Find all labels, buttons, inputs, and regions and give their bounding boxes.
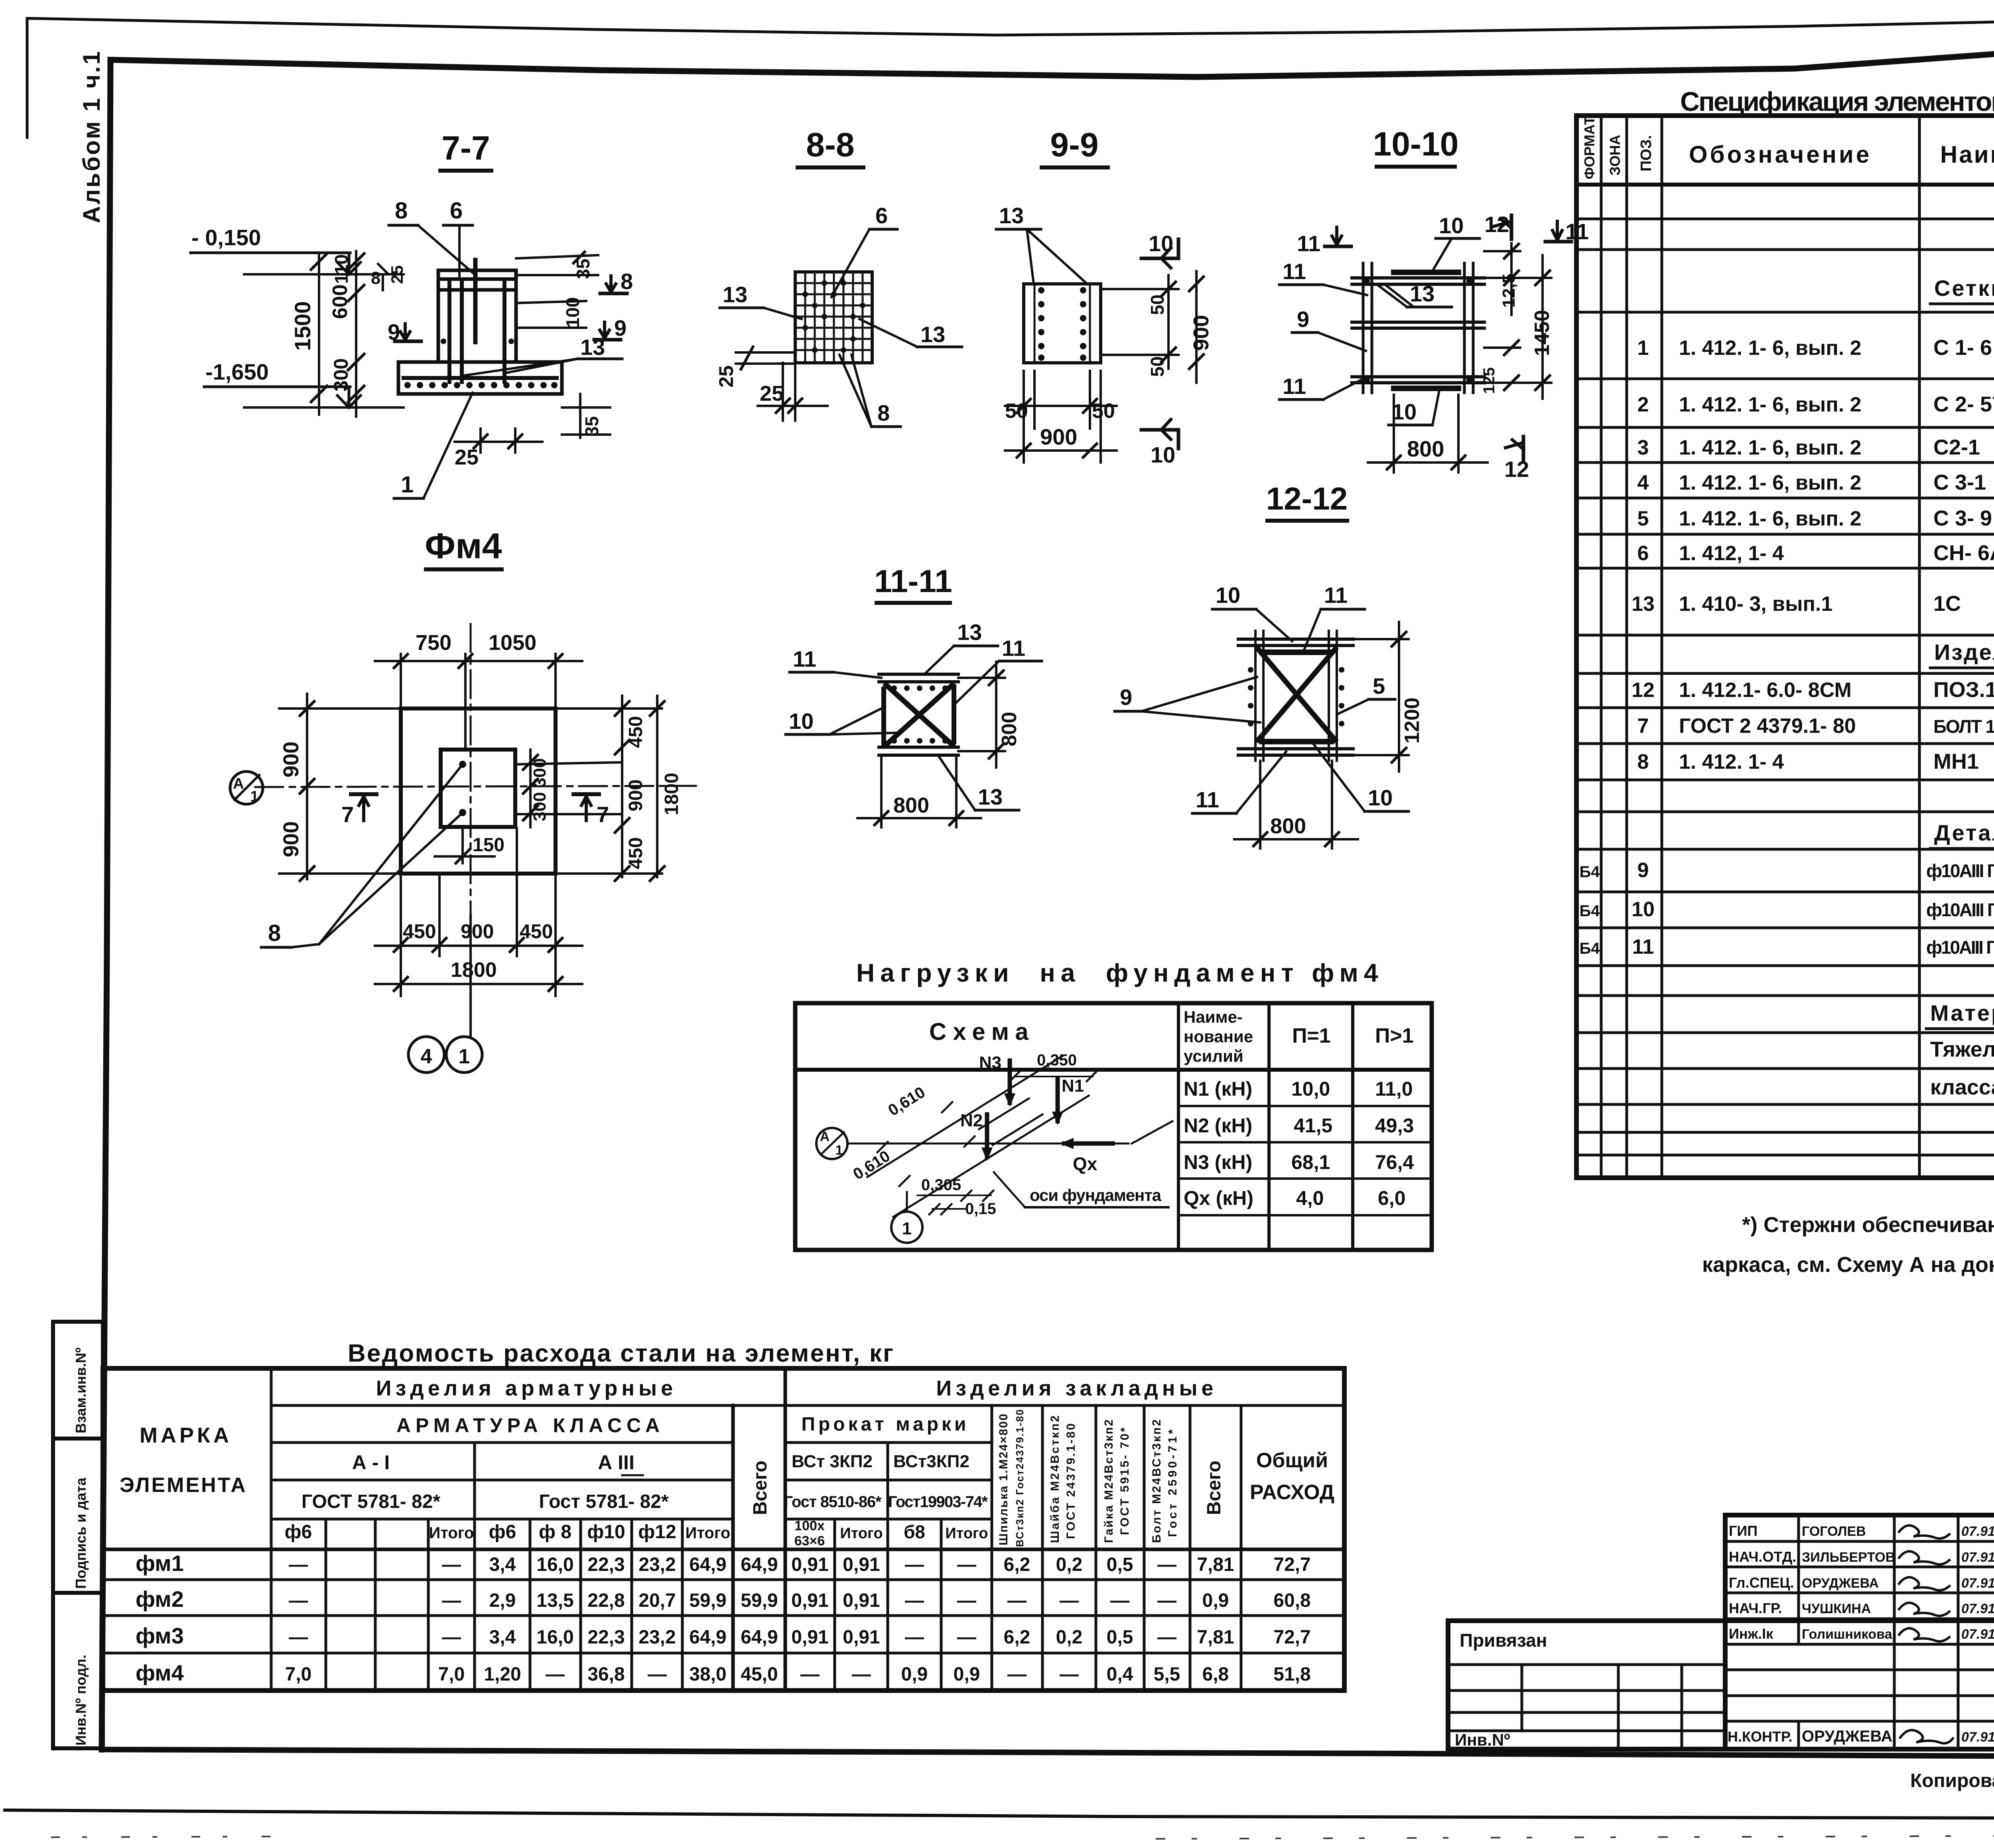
svg-text:0,610: 0,610: [850, 1147, 893, 1183]
svg-text:11: 11: [1002, 636, 1025, 661]
svg-text:Альбом 1 ч.1: Альбом 1 ч.1: [78, 50, 105, 223]
svg-text:900: 900: [279, 742, 303, 777]
svg-text:1200: 1200: [1401, 697, 1424, 744]
svg-text:Схема: Схема: [929, 1018, 1035, 1045]
section 12-12 leader 11 bottom-left: [1192, 752, 1286, 813]
svg-text:63×6: 63×6: [794, 1533, 825, 1549]
svg-text:Изделия арматурные: Изделия арматурные: [376, 1376, 677, 1400]
svg-text:13: 13: [580, 335, 605, 360]
section 12-12 title: [1266, 481, 1348, 521]
svg-text:0,15: 0,15: [965, 1200, 996, 1218]
loads schema axes label: [994, 1121, 1172, 1207]
svg-text:ПОЗ.: ПОЗ.: [1638, 135, 1655, 171]
section 12-12 embed bars: [1262, 649, 1331, 655]
svg-text:МАРКА: МАРКА: [140, 1423, 232, 1447]
svg-text:49,3: 49,3: [1375, 1114, 1414, 1137]
svg-text:3,4: 3,4: [489, 1554, 516, 1575]
section 7-7 dim chain 110 600 300: [329, 251, 406, 417]
svg-text:900: 900: [1040, 424, 1077, 449]
section 11-11 leader 11 top-right: [956, 636, 1042, 703]
svg-text:2,9: 2,9: [489, 1590, 516, 1611]
svg-text:300: 300: [530, 792, 550, 821]
svg-text:Qх (кН): Qх (кН): [1184, 1187, 1253, 1209]
svg-text:1800: 1800: [661, 773, 682, 815]
svg-text:7: 7: [341, 802, 354, 827]
section 7-7 column outline: [438, 270, 516, 362]
svg-text:Общий: Общий: [1256, 1449, 1328, 1472]
svg-text:Б4: Б4: [1580, 940, 1600, 957]
section 9-9 leader label 13: [996, 203, 1087, 284]
svg-text:23,2: 23,2: [638, 1627, 676, 1648]
svg-text:4,0: 4,0: [1296, 1187, 1324, 1209]
svg-text:900: 900: [279, 821, 303, 857]
svg-text:800: 800: [998, 712, 1021, 746]
section 8-8 mesh outline: [795, 272, 872, 363]
svg-text:45,0: 45,0: [741, 1664, 778, 1685]
svg-text:50: 50: [1092, 400, 1115, 423]
title block outer: [1448, 1621, 1994, 1749]
svg-text:11: 11: [1283, 374, 1306, 399]
svg-text:0,350: 0,350: [1037, 1051, 1077, 1069]
svg-text:13: 13: [1410, 281, 1434, 306]
svg-text:оси фундамента: оси фундамента: [1030, 1186, 1162, 1204]
svg-text:72,7: 72,7: [1273, 1627, 1310, 1648]
svg-text:1800: 1800: [451, 958, 497, 982]
svg-text:каркаса, см. Схему А на доку: каркаса, см. Схему А на документе 1.412.…: [1702, 1253, 1994, 1277]
svg-text:600: 600: [329, 284, 352, 319]
svg-text:С 3- 9: С 3- 9: [1933, 506, 1992, 530]
svg-text:—: —: [648, 1664, 667, 1685]
svg-text:8: 8: [621, 269, 633, 294]
section 7-7 mark 9 down-right: [594, 315, 627, 340]
svg-text:ГИП: ГИП: [1729, 1523, 1758, 1539]
svg-text:0,305: 0,305: [921, 1176, 961, 1194]
svg-text:750: 750: [416, 631, 451, 655]
paper top edge line: [27, 18, 1994, 35]
svg-text:07.91: 07.91: [1961, 1601, 1994, 1616]
svg-text:Изделия закладные: Изделия закладные: [1934, 640, 1994, 665]
loads schema dim 0,350: [1010, 1051, 1097, 1081]
section 7-7 anchor bolt: [473, 260, 478, 342]
section 7-7 dim 35 bottom right: [562, 394, 610, 438]
plan FM4 right dim chain 450 900 450: [556, 696, 682, 881]
svg-text:ф 8: ф 8: [539, 1521, 571, 1543]
section 11-11 leader 13 top: [924, 620, 998, 674]
svg-text:ф6: ф6: [489, 1521, 516, 1543]
svg-text:—: —: [1157, 1554, 1176, 1575]
loads schema force N3: [979, 1053, 1015, 1107]
svg-text:нование: нование: [1184, 1027, 1253, 1046]
svg-text:25: 25: [715, 365, 737, 388]
svg-text:1500: 1500: [290, 301, 315, 351]
svg-text:Детали: Детали: [1934, 820, 1994, 845]
svg-text:4: 4: [1637, 471, 1649, 494]
svg-text:-1,650: -1,650: [205, 359, 269, 384]
svg-text:А III: А III: [598, 1451, 634, 1474]
svg-text:0,4: 0,4: [1107, 1664, 1133, 1685]
svg-text:07.91: 07.91: [1961, 1730, 1994, 1745]
svg-text:07.91: 07.91: [1961, 1627, 1994, 1642]
svg-text:Н.КОНТР.: Н.КОНТР.: [1728, 1728, 1793, 1745]
svg-text:Ведомость расхода стали на эле: Ведомость расхода стали на элемент, кг: [348, 1340, 898, 1367]
svg-text:20,7: 20,7: [638, 1590, 676, 1611]
svg-text:С 1- 6: С 1- 6: [1933, 336, 1992, 360]
plan FM4 section mark 7 left: [341, 794, 376, 827]
svg-text:22,3: 22,3: [587, 1627, 625, 1648]
svg-text:0,9: 0,9: [1202, 1590, 1229, 1611]
svg-text:Изделия закладные: Изделия закладные: [936, 1376, 1217, 1400]
svg-text:8: 8: [268, 920, 281, 946]
section 10-10 dim 125 right bottom: [1480, 340, 1520, 394]
svg-text:1. 412.1- 6.0- 8СМ: 1. 412.1- 6.0- 8СМ: [1679, 679, 1852, 702]
svg-text:5: 5: [1637, 507, 1649, 530]
section 12-12 dim 1200 right: [1353, 622, 1424, 771]
svg-text:ф10АIII ГОСТ 5781-82*, e=1180: ф10АIII ГОСТ 5781-82*, e=1180: [1926, 899, 1994, 920]
svg-text:*) Стержни обеспечивают прос: *) Стержни обеспечивают пространственную…: [1742, 1213, 1994, 1237]
svg-text:АРМАТУРА КЛАССА: АРМАТУРА КЛАССА: [396, 1414, 664, 1437]
svg-text:6,2: 6,2: [1004, 1627, 1030, 1648]
paper left edge line: [26, 18, 29, 138]
section 11-11 X brace: [886, 685, 952, 745]
svg-text:300: 300: [330, 358, 352, 392]
section 10-10 leader 11 bottom-left: [1279, 374, 1367, 400]
svg-text:—: —: [289, 1627, 308, 1648]
svg-text:0,91: 0,91: [791, 1554, 828, 1575]
section 9-9 right dims 50 900 50: [1101, 271, 1213, 383]
svg-text:—: —: [800, 1664, 820, 1685]
spec table horizontals: [1576, 185, 1994, 1155]
svg-text:Сетки арматурные: Сетки арматурные: [1934, 276, 1994, 301]
svg-text:4: 4: [421, 1045, 432, 1068]
section 7-7 footing outline: [398, 362, 562, 394]
loads table row lines: [1178, 1105, 1432, 1107]
svg-text:А: А: [820, 1129, 830, 1144]
svg-text:БОЛТ 1.1М 24×800,ВСТ3КП2: БОЛТ 1.1М 24×800,ВСТ3КП2: [1933, 716, 1994, 737]
svg-text:1. 412. 1- 6, вып. 2: 1. 412. 1- 6, вып. 2: [1679, 436, 1862, 459]
plan FM4 dim 150: [435, 827, 504, 863]
section 10-10 embed bars: [1394, 270, 1458, 275]
svg-text:10: 10: [1149, 231, 1173, 256]
svg-text:N3: N3: [979, 1053, 1001, 1073]
plan FM4 leader label 8: [261, 766, 461, 947]
svg-text:9-9: 9-9: [1050, 126, 1098, 163]
svg-text:72,7: 72,7: [1273, 1554, 1310, 1575]
svg-text:Итого: Итого: [429, 1524, 474, 1542]
signature table columns: [1799, 1515, 1958, 1749]
steel table frame: [103, 1368, 1344, 1691]
svg-text:1. 412. 1- 6, вып. 2: 1. 412. 1- 6, вып. 2: [1679, 393, 1862, 416]
section 11-11 leader 11 left: [790, 646, 881, 678]
section 7-7 footing mesh bar: [404, 376, 557, 380]
svg-text:1. 412, 1- 4: 1. 412, 1- 4: [1679, 542, 1784, 565]
svg-text:Наиме-: Наиме-: [1184, 1008, 1243, 1026]
section 8-8 leader label 13 left: [720, 282, 802, 319]
section 8-8 leader label 6: [831, 203, 897, 297]
svg-text:фм2: фм2: [136, 1586, 184, 1612]
svg-text:Нагрузки на фундамент фм4: Нагрузки на фундамент фм4: [856, 958, 1383, 987]
svg-text:35: 35: [581, 416, 602, 437]
svg-text:12-12: 12-12: [1266, 481, 1348, 516]
section 9-9 title: [1042, 126, 1108, 167]
section 11-11 title: [874, 563, 952, 603]
svg-text:—: —: [289, 1590, 308, 1611]
svg-text:10: 10: [1368, 785, 1393, 810]
svg-text:6,8: 6,8: [1202, 1664, 1229, 1685]
svg-text:10-10: 10-10: [1373, 125, 1459, 163]
svg-text:800: 800: [893, 793, 929, 817]
loads table header line: [795, 1068, 1432, 1072]
svg-text:ОРУДЖЕВА: ОРУДЖЕВА: [1802, 1728, 1892, 1745]
svg-text:Материалы: Материалы: [1930, 1000, 1994, 1025]
svg-text:0,91: 0,91: [843, 1554, 880, 1575]
section 9-9 cut mark 10 top: [1141, 231, 1178, 268]
plan FM4 bottom dim 1800: [375, 958, 582, 991]
section 7-7 footing rebar dots: [404, 382, 558, 388]
section 12-12 dim 800 bottom: [1234, 761, 1358, 848]
steel table verticals: [271, 1368, 1241, 1691]
section 10-10 leader 10 top: [1432, 213, 1480, 272]
svg-text:800: 800: [1270, 814, 1306, 838]
svg-text:РАСХОД: РАСХОД: [1250, 1481, 1334, 1504]
svg-text:12: 12: [1504, 457, 1529, 482]
svg-text:—: —: [1157, 1590, 1176, 1611]
section 7-7 elevation mark -1,650: [204, 359, 404, 407]
section 7-7 mark 8 down-right: [600, 269, 633, 294]
svg-text:7-7: 7-7: [441, 129, 490, 167]
plan FM4 axis circle A/1: [230, 771, 263, 805]
svg-text:450: 450: [403, 920, 436, 943]
svg-text:1. 410- 3, вып.1: 1. 410- 3, вып.1: [1679, 592, 1832, 616]
svg-text:07.91: 07.91: [1961, 1576, 1994, 1591]
svg-text:Фм4: Фм4: [425, 526, 502, 566]
svg-text:Прокат марки: Прокат марки: [801, 1414, 969, 1435]
section 10-10 mark 11 down far right: [1545, 219, 1589, 244]
svg-text:900: 900: [461, 920, 494, 943]
svg-text:8: 8: [395, 198, 408, 224]
plan FM4 section mark 7 right: [573, 794, 609, 827]
svg-text:13: 13: [723, 282, 747, 307]
section 10-10 cut mark 12 bottom: [1504, 437, 1529, 482]
svg-text:0,91: 0,91: [791, 1590, 828, 1611]
svg-text:Всего: Всего: [750, 1460, 771, 1515]
section 12-12 dots: [1248, 667, 1344, 726]
section 10-10 leader 11 left: [1279, 259, 1367, 295]
svg-text:8: 8: [877, 400, 890, 425]
svg-text:ф10: ф10: [587, 1521, 625, 1543]
svg-text:125: 125: [1480, 367, 1498, 394]
svg-text:ГОГОЛЕВ: ГОГОЛЕВ: [1802, 1524, 1866, 1539]
svg-text:Копировал: Несмеянова,: Копировал: Несмеянова,: [1910, 1770, 1994, 1791]
svg-text:1050: 1050: [489, 631, 536, 655]
svg-text:НАЧ.ГР.: НАЧ.ГР.: [1729, 1600, 1782, 1616]
section 8-8 dim 25 left: [715, 347, 795, 388]
section 11-11 dots: [891, 685, 948, 744]
svg-text:Гост19903-74*: Гост19903-74*: [888, 1493, 988, 1511]
svg-text:13: 13: [957, 620, 982, 645]
steel table horizontals: [103, 1405, 1344, 1653]
svg-text:С2-1: С2-1: [1933, 435, 1980, 459]
svg-text:38,0: 38,0: [689, 1664, 726, 1685]
svg-text:С 2- 57: С 2- 57: [1933, 392, 1994, 416]
svg-text:Шпилька 1.М24×800: Шпилька 1.М24×800: [997, 1414, 1010, 1545]
svg-text:10: 10: [789, 708, 814, 734]
section 11-11 top plate: [879, 673, 958, 676]
svg-text:07.91: 07.91: [1961, 1524, 1994, 1539]
svg-text:9: 9: [1120, 685, 1132, 710]
svg-text:6: 6: [450, 198, 463, 224]
svg-text:11: 11: [1632, 935, 1654, 958]
svg-text:50: 50: [1005, 400, 1028, 423]
svg-text:Наименование: Наименование: [1940, 141, 1994, 168]
svg-text:Привязан: Привязан: [1460, 1630, 1547, 1651]
svg-text:13,5: 13,5: [536, 1590, 573, 1611]
svg-text:1,20: 1,20: [484, 1664, 521, 1685]
loads schema axis circle A/1: [816, 1128, 847, 1159]
svg-text:800: 800: [1407, 436, 1444, 461]
svg-text:59,9: 59,9: [741, 1590, 778, 1611]
svg-text:фм3: фм3: [136, 1623, 184, 1648]
svg-text:10: 10: [1216, 583, 1240, 608]
svg-text:11: 11: [1196, 787, 1219, 812]
section 9-9 column outline: [1024, 284, 1101, 363]
svg-text:13: 13: [978, 784, 1003, 809]
svg-text:ГОСТ 5915- 70*: ГОСТ 5915- 70*: [1118, 1427, 1131, 1535]
svg-text:13: 13: [1631, 592, 1655, 616]
svg-text:фм4: фм4: [136, 1660, 184, 1685]
section 10-10 cut mark 12 top: [1484, 212, 1511, 239]
paper bottom edge line: [5, 1810, 1994, 1819]
svg-text:8: 8: [371, 268, 380, 288]
svg-text:П>1: П>1: [1375, 1024, 1414, 1047]
section 10-10 title: [1373, 125, 1459, 167]
plan FM4 inner square: [441, 750, 515, 827]
svg-text:07.91: 07.91: [1961, 1550, 1994, 1565]
section 12-12 X brace: [1258, 649, 1335, 740]
svg-text:ф12: ф12: [638, 1521, 676, 1543]
title block signature table outline: [1725, 1515, 1994, 1749]
svg-text:N3 (кН): N3 (кН): [1184, 1151, 1252, 1173]
svg-text:0,5: 0,5: [1107, 1627, 1133, 1648]
svg-text:- 0,150: - 0,150: [191, 225, 261, 250]
section 7-7 leader label 8: [389, 198, 475, 274]
svg-text:23,2: 23,2: [638, 1554, 676, 1575]
svg-text:ВСт 3КП2: ВСт 3КП2: [792, 1452, 873, 1471]
svg-text:16,0: 16,0: [536, 1627, 573, 1648]
svg-text:13: 13: [999, 203, 1024, 228]
section 12-12 leader 10 bottom-right: [1314, 745, 1409, 811]
svg-text:Инв.Nº: Инв.Nº: [1455, 1730, 1510, 1749]
section 12-12 side form lines: [1255, 631, 1337, 761]
svg-text:11: 11: [793, 646, 816, 671]
svg-text:9: 9: [1297, 307, 1309, 332]
section 10-10 leader 10 bottom: [1389, 388, 1440, 425]
svg-text:25: 25: [388, 265, 406, 284]
svg-text:0,91: 0,91: [791, 1627, 828, 1648]
svg-text:усилий: усилий: [1184, 1047, 1243, 1065]
svg-text:10: 10: [1439, 213, 1464, 238]
svg-text:ГОСТ 24379.1-80: ГОСТ 24379.1-80: [1064, 1423, 1078, 1539]
section 12-12 leader 9 left: [1115, 677, 1260, 722]
loads schema axis circle 1: [891, 1192, 922, 1243]
spec table verticals: [1601, 116, 1994, 1178]
section 8-8 dim 25 bottom: [758, 363, 828, 421]
svg-text:11: 11: [1283, 259, 1306, 284]
svg-text:Гост 2590-71*: Гост 2590-71*: [1166, 1429, 1179, 1537]
spec table frame: [1576, 116, 1994, 1178]
svg-text:—: —: [442, 1627, 461, 1648]
svg-text:Инж.Ік: Инж.Ік: [1729, 1626, 1773, 1642]
svg-text:7,81: 7,81: [1197, 1627, 1234, 1648]
svg-text:7: 7: [1637, 714, 1649, 738]
svg-text:50: 50: [1147, 295, 1168, 315]
section 7-7 column rebars: [447, 280, 451, 382]
svg-text:300: 300: [530, 758, 550, 787]
svg-text:110: 110: [331, 254, 352, 284]
svg-text:ЧУШКИНА: ЧУШКИНА: [1802, 1601, 1871, 1616]
svg-text:—: —: [1060, 1664, 1079, 1685]
section 7-7 dim 100 right: [516, 297, 586, 328]
section 7-7 leader label 1: [394, 393, 473, 498]
left margin stamp boxes: [53, 1322, 103, 1748]
svg-text:Qх: Qх: [1073, 1153, 1097, 1174]
svg-text:64,9: 64,9: [741, 1554, 778, 1575]
svg-text:1: 1: [459, 1045, 470, 1068]
svg-text:450: 450: [625, 837, 646, 869]
svg-text:5,5: 5,5: [1154, 1664, 1180, 1685]
svg-text:1450: 1450: [1531, 310, 1554, 356]
svg-text:25: 25: [760, 382, 784, 405]
svg-text:—: —: [1110, 1590, 1129, 1611]
section 12-12 leader 11 top-right: [1304, 583, 1365, 650]
svg-text:ЗОНА: ЗОНА: [1607, 135, 1623, 175]
section 9-9 rebar dots: [1038, 287, 1086, 361]
svg-text:Гл.СПЕЦ.: Гл.СПЕЦ.: [1729, 1574, 1794, 1591]
svg-text:1. 412. 1- 6, вып. 2: 1. 412. 1- 6, вып. 2: [1679, 507, 1862, 530]
loads schema foundation hatch: [979, 1098, 1029, 1129]
svg-text:900: 900: [625, 779, 646, 811]
svg-text:Инв.Nº подл.: Инв.Nº подл.: [73, 1655, 89, 1746]
svg-text:3,4: 3,4: [489, 1627, 516, 1648]
svg-text:—: —: [1007, 1664, 1027, 1685]
svg-text:МН1: МН1: [1933, 750, 1979, 773]
section 10-10 leader 13: [1377, 281, 1452, 307]
svg-text:5: 5: [1373, 673, 1385, 699]
loads schema force Qx: [1060, 1138, 1113, 1174]
svg-text:Гост 8510-86*: Гост 8510-86*: [784, 1493, 882, 1511]
svg-text:11-11: 11-11: [874, 563, 952, 599]
svg-text:—: —: [546, 1664, 565, 1685]
plan FM4 top dim chain 750 1050: [375, 631, 582, 750]
loads table columns: [1177, 1003, 1180, 1250]
svg-text:б8: б8: [904, 1521, 925, 1542]
section 10-10 mark 11 down top-left: [1297, 227, 1351, 256]
svg-text:ВСт3КП2: ВСт3КП2: [893, 1452, 969, 1471]
svg-text:1. 412. 1- 4: 1. 412. 1- 4: [1679, 750, 1784, 773]
svg-text:6: 6: [1637, 542, 1649, 565]
section 7-7 dim chain 1500: [290, 254, 327, 415]
svg-text:100: 100: [562, 297, 583, 328]
svg-text:0,91: 0,91: [843, 1627, 880, 1648]
svg-text:0,91: 0,91: [843, 1590, 880, 1611]
svg-text:ВСт3кп2 Гост24379.1-80: ВСт3кп2 Гост24379.1-80: [1014, 1409, 1026, 1547]
svg-text:11,0: 11,0: [1375, 1078, 1413, 1100]
section 10-10 leader 9 left: [1292, 307, 1366, 351]
svg-text:450: 450: [520, 920, 553, 943]
svg-text:П=1: П=1: [1292, 1024, 1331, 1047]
svg-text:8-8: 8-8: [806, 126, 854, 163]
section 8-8 mesh node dots: [802, 280, 865, 353]
svg-text:ФОРМАТ: ФОРМАТ: [1581, 116, 1598, 179]
